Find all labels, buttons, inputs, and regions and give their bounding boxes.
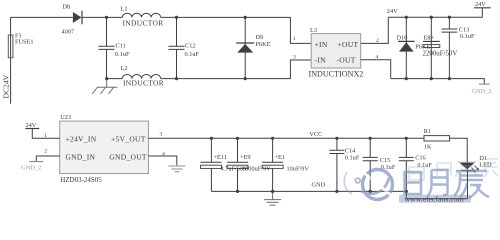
svg-text:DC24V: DC24V bbox=[2, 74, 11, 98]
svg-text:+OUT: +OUT bbox=[338, 40, 359, 49]
wire top rail left bbox=[82, 17, 311, 43]
wire DC24V input vertical bbox=[11, 17, 73, 103]
watermark char 2 bbox=[428, 170, 448, 196]
svg-text:1K: 1K bbox=[424, 143, 432, 150]
svg-text:HZD03-24S05: HZD03-24S05 bbox=[60, 176, 102, 184]
svg-text:2: 2 bbox=[44, 148, 47, 154]
svg-text:L2: L2 bbox=[121, 65, 128, 72]
svg-text:+E1: +E1 bbox=[275, 154, 286, 161]
watermark faint chars bbox=[409, 159, 498, 180]
svg-text:P6KE: P6KE bbox=[415, 44, 430, 51]
watermark logo circle bbox=[344, 170, 392, 200]
svg-text:P6KE: P6KE bbox=[256, 41, 271, 48]
capacitor E1 bbox=[262, 138, 283, 162]
svg-text:VCC: VCC bbox=[309, 131, 322, 138]
svg-text:GND_OUT: GND_OUT bbox=[109, 153, 147, 162]
svg-text:4: 4 bbox=[162, 151, 165, 157]
svg-text:24V: 24V bbox=[26, 122, 37, 129]
resistor R1 bbox=[424, 136, 450, 141]
svg-text:C14: C14 bbox=[345, 147, 356, 154]
capacitor E8 electrolytic bbox=[430, 17, 432, 78]
svg-text:L1: L1 bbox=[121, 6, 128, 13]
capacitor C14 bbox=[329, 138, 344, 191]
svg-text:D8: D8 bbox=[63, 4, 71, 11]
svg-text:FUSE1: FUSE1 bbox=[15, 38, 34, 45]
capacitor C13 bbox=[442, 29, 458, 32]
svg-text:C11: C11 bbox=[116, 43, 126, 50]
svg-text:D10: D10 bbox=[397, 34, 408, 41]
svg-text:INDUCTIONX2: INDUCTIONX2 bbox=[309, 69, 364, 78]
watermark char 1 bbox=[405, 172, 422, 194]
diode D10 TVS bbox=[405, 17, 407, 78]
fuse F1 bbox=[8, 35, 13, 58]
wire bottom rail bbox=[107, 60, 312, 79]
svg-text:-OUT: -OUT bbox=[337, 55, 356, 64]
capacitor E9 bbox=[227, 138, 248, 162]
wire GND rail bbox=[211, 190, 406, 192]
svg-text:1: 1 bbox=[293, 36, 296, 42]
svg-text:3: 3 bbox=[160, 132, 163, 138]
svg-text:GND: GND bbox=[312, 181, 326, 188]
power 24V bar top right bbox=[474, 7, 491, 9]
capacitor C12 bbox=[169, 17, 185, 78]
labels lower circuit bbox=[21, 114, 492, 188]
svg-text:1000uF/9V: 1000uF/9V bbox=[242, 166, 271, 173]
svg-text:INDUCTOR: INDUCTOR bbox=[123, 78, 164, 87]
wire U23 pin4 bbox=[148, 156, 176, 165]
svg-text:0.1uF: 0.1uF bbox=[460, 33, 475, 40]
inductor L2 bbox=[122, 74, 160, 78]
svg-text:+IN: +IN bbox=[315, 40, 328, 49]
ground GND rail bbox=[264, 191, 281, 205]
capacitor C11 bbox=[99, 17, 115, 78]
svg-text:GND_2: GND_2 bbox=[472, 88, 492, 95]
svg-text:+E9: +E9 bbox=[240, 154, 251, 161]
power GND_2 bar top right bbox=[479, 83, 490, 85]
svg-text:+24V_IN: +24V_IN bbox=[66, 135, 97, 144]
capacitor E11 bbox=[201, 138, 222, 162]
diode D9 TVS bbox=[244, 17, 246, 78]
capacitor C13 wire bbox=[448, 17, 450, 78]
svg-text:C16: C16 bbox=[415, 154, 426, 161]
svg-text:2200uF/50V: 2200uF/50V bbox=[423, 51, 458, 58]
svg-text:C12: C12 bbox=[185, 43, 196, 50]
svg-text:+5V_OUT: +5V_OUT bbox=[111, 135, 146, 144]
capacitor C16 bbox=[399, 138, 414, 191]
svg-text:0.1uF: 0.1uF bbox=[115, 51, 130, 58]
wire GND_2 rail right bbox=[391, 79, 485, 84]
svg-text:10uF/9V: 10uF/9V bbox=[287, 166, 310, 173]
diode D8 bbox=[73, 12, 82, 23]
svg-text:D9: D9 bbox=[256, 34, 264, 41]
svg-text:GND_2: GND_2 bbox=[21, 164, 41, 171]
ground earth top bbox=[97, 79, 117, 88]
svg-text:0.1uF: 0.1uF bbox=[185, 51, 200, 58]
svg-text:3: 3 bbox=[293, 54, 296, 60]
svg-text:E8+: E8+ bbox=[424, 35, 435, 42]
watermark band www.elecfans.com bbox=[399, 194, 471, 203]
svg-text:4007: 4007 bbox=[62, 29, 75, 36]
ground U23 pin4 bbox=[169, 166, 186, 172]
labels top circuit bbox=[2, 1, 492, 99]
capacitor C15 bbox=[363, 138, 378, 191]
inductor module L3 box bbox=[311, 34, 361, 68]
watermark char 3 bbox=[454, 171, 489, 198]
svg-text:R1: R1 bbox=[424, 128, 431, 135]
svg-text:+E11: +E11 bbox=[214, 154, 227, 161]
wire L3 outputs bbox=[361, 17, 391, 78]
svg-text:C15: C15 bbox=[380, 157, 391, 164]
wire GND segment bottom right bbox=[406, 170, 467, 198]
svg-text:-IN: -IN bbox=[315, 55, 327, 64]
LED D1 bbox=[459, 163, 475, 170]
svg-text:GND_IN: GND_IN bbox=[66, 153, 96, 162]
regulator U23 box bbox=[60, 121, 149, 174]
svg-text:4: 4 bbox=[376, 55, 379, 61]
power 24V lower left bbox=[25, 128, 39, 130]
inductor L1 bbox=[122, 13, 160, 17]
wire 24V rail right bbox=[388, 8, 482, 17]
svg-text:24V: 24V bbox=[387, 8, 398, 15]
wire R1 to LED bbox=[450, 138, 468, 162]
svg-text:INDUCTOR: INDUCTOR bbox=[123, 18, 164, 27]
svg-text:U23: U23 bbox=[60, 114, 71, 121]
power GND_2 lower left bbox=[36, 156, 59, 162]
wire VCC rail bbox=[148, 137, 424, 139]
svg-text:L3: L3 bbox=[310, 27, 317, 34]
svg-text:0.1uF: 0.1uF bbox=[345, 155, 360, 162]
svg-text:2: 2 bbox=[376, 38, 379, 44]
svg-text:1: 1 bbox=[44, 133, 47, 139]
svg-text:24V: 24V bbox=[475, 1, 486, 8]
